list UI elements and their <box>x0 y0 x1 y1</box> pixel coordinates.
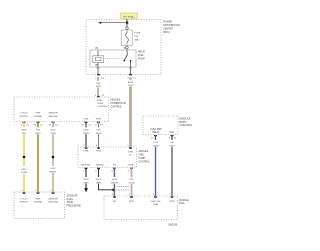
PDC label <box>163 21 180 35</box>
relay switch <box>123 50 131 75</box>
sensor pin numbers <box>21 190 52 192</box>
wire Z904 ground (black) <box>85 168 87 189</box>
svg-text:BR/WT: BR/WT <box>49 171 57 173</box>
svg-text:CONTROL: CONTROL <box>111 107 123 109</box>
node square junction <box>126 22 128 24</box>
svg-text:VT/LB: VT/LB <box>128 182 135 184</box>
svg-text:RELAY: RELAY <box>152 131 160 134</box>
wire K95 pump - (violet) <box>131 168 133 196</box>
wire K941 5 volt supply (yellow) <box>23 122 25 192</box>
wire K95 rtn (green) <box>98 122 100 147</box>
svg-text:MODULE: MODULE <box>179 200 189 202</box>
svg-text:SUPPLY: SUPPLY <box>20 202 29 204</box>
svg-text:FUEL: FUEL <box>179 203 186 205</box>
wire T16 (dark gray) <box>171 135 173 196</box>
pump module top connectors <box>113 196 174 198</box>
power distribution center dashed box <box>86 20 161 75</box>
svg-text:GROUND: GROUND <box>81 165 91 167</box>
hot at all times label <box>121 13 138 19</box>
svg-text:5 VOLT: 5 VOLT <box>20 198 28 200</box>
svg-text:RTN: RTN <box>96 119 101 121</box>
wire labels under PCM <box>19 127 104 134</box>
svg-text:18BK: 18BK <box>96 182 102 184</box>
svg-text:RTN: RTN <box>96 151 101 153</box>
wire K167 sensor ground (tan) <box>52 122 54 192</box>
relay name <box>138 51 146 61</box>
sensor label <box>67 194 82 208</box>
svg-text:PMP: PMP <box>36 198 41 200</box>
svg-text:SIGNAL: SIGNAL <box>34 201 43 204</box>
svg-text:DB/OR: DB/OR <box>111 182 118 184</box>
svg-text:MTR: MTR <box>129 165 134 167</box>
svg-text:POWERTRAIN: POWERTRAIN <box>111 102 127 105</box>
wire label K54 <box>93 81 103 88</box>
sensor pin labels <box>20 198 59 203</box>
svg-text:PUMP: PUMP <box>138 59 145 61</box>
svg-text:K167: K167 <box>50 130 56 132</box>
svg-text:J962530: J962530 <box>168 223 178 226</box>
svg-text:18DB: 18DB <box>153 145 159 147</box>
splice labels <box>19 166 58 174</box>
svg-text:K226: K226 <box>83 130 89 132</box>
svg-text:FUEL IND: FUEL IND <box>151 201 161 203</box>
junction dot <box>112 189 115 192</box>
svg-text:CONTROL: CONTROL <box>139 162 151 164</box>
twisted pair dashes <box>117 185 131 187</box>
coil to switch dashed link <box>104 58 123 60</box>
svg-text:T141: T141 <box>153 142 159 144</box>
svg-text:FUSE: FUSE <box>135 33 141 35</box>
svg-text:PMP: PMP <box>36 113 41 115</box>
PCM pin function labels <box>20 100 109 121</box>
svg-text:HOT AT ALL: HOT AT ALL <box>123 15 136 18</box>
svg-text:FUEL: FUEL <box>138 55 145 57</box>
FPCM top connectors <box>84 147 132 149</box>
wire T141 (blue) <box>155 135 157 196</box>
svg-text:MODULE: MODULE <box>139 151 149 153</box>
wire shield drain (black, joins pump+) <box>99 168 113 190</box>
fuel tank pressure sensor dashed box <box>14 192 65 219</box>
sensor top connectors <box>22 192 54 194</box>
BCM bottom connectors <box>154 135 174 137</box>
pump module pin labels <box>113 201 175 206</box>
svg-text:SHIELD: SHIELD <box>96 165 104 167</box>
PCM label <box>111 100 127 109</box>
fuel pump control module dashed box <box>78 147 137 168</box>
svg-text:SHLD: SHLD <box>96 179 102 181</box>
svg-text:MTR: MTR <box>170 201 175 203</box>
splice S2 on tan wire <box>52 156 55 159</box>
svg-text:18YL: 18YL <box>21 133 27 135</box>
svg-text:CONTROL: CONTROL <box>97 106 108 108</box>
fuel pump module dashed box <box>104 196 178 220</box>
ground arrow <box>84 188 88 192</box>
svg-text:18BK: 18BK <box>83 182 89 184</box>
svg-text:FUEL PMP: FUEL PMP <box>150 129 162 131</box>
svg-text:18GN: 18GN <box>96 133 102 135</box>
svg-text:SPB: SPB <box>128 152 133 154</box>
svg-text:K941: K941 <box>21 169 27 171</box>
svg-text:12TN: 12TN <box>128 85 134 87</box>
svg-text:MTR: MTR <box>129 201 134 203</box>
svg-text:18GY: 18GY <box>169 145 175 147</box>
wire K231 pump + (blue) <box>114 168 116 196</box>
svg-text:18TN: 18TN <box>96 86 102 88</box>
svg-text:30A: 30A <box>135 39 139 42</box>
pump module label <box>179 200 189 205</box>
svg-text:GROUND: GROUND <box>48 116 58 118</box>
wire K226 ctrl (dark blue) <box>85 122 87 147</box>
FPCM bottom wire labels <box>81 177 137 184</box>
splice S1 on yellow wire <box>23 156 26 159</box>
FPCM bottom connectors <box>84 168 133 170</box>
BCM label <box>180 117 193 128</box>
relay U: fuel pump relay box <box>90 50 136 67</box>
svg-text:18DY: 18DY <box>35 133 41 135</box>
svg-text:SIGNAL: SIGNAL <box>34 115 43 118</box>
svg-text:IGN: IGN <box>169 132 173 134</box>
svg-text:SENSOR: SENSOR <box>48 198 58 200</box>
svg-text:CTRL: CTRL <box>83 119 89 121</box>
svg-text:CONTROL: CONTROL <box>180 123 193 127</box>
wire A141 relay output (tan thick) <box>129 78 131 148</box>
BCM wire labels <box>150 140 177 147</box>
svg-text:PRESSURE: PRESSURE <box>67 204 82 208</box>
svg-text:CTRL: CTRL <box>83 151 89 153</box>
svg-text:PUMP: PUMP <box>139 158 146 160</box>
body control module dashed box <box>143 116 178 135</box>
feed wire with left arrow <box>100 22 127 24</box>
svg-text:SENSOR: SENSOR <box>48 113 58 115</box>
PCM top connector <box>97 96 100 98</box>
svg-text:K941: K941 <box>21 130 27 132</box>
wire label A141 <box>125 80 136 87</box>
svg-text:K231: K231 <box>112 179 118 181</box>
svg-text:A141: A141 <box>128 81 134 84</box>
svg-text:18TN: 18TN <box>50 133 56 135</box>
svg-text:RELAY: RELAY <box>138 51 146 54</box>
connector at PDC bottom, switch wire <box>129 74 132 76</box>
svg-text:PUMP: PUMP <box>97 103 104 105</box>
PCM bottom connectors <box>22 122 100 124</box>
wire K54 pump signal (dark yellow) <box>37 122 39 192</box>
svg-text:PMA: PMA <box>153 203 158 206</box>
fuse F12 <box>121 27 132 50</box>
BCM pin labels <box>150 129 174 134</box>
wire K54 relay coil to PCM (tan) <box>97 77 99 97</box>
svg-text:5 VOLT: 5 VOLT <box>20 113 28 115</box>
svg-text:MODULE: MODULE <box>111 100 121 102</box>
svg-text:YL/RD: YL/RD <box>21 172 28 174</box>
svg-text:Z904: Z904 <box>84 179 90 181</box>
svg-text:FUEL: FUEL <box>97 100 103 102</box>
svg-text:18DB: 18DB <box>83 133 89 135</box>
FPCM label <box>139 151 151 164</box>
relay coil <box>93 50 104 75</box>
FPCM pin labels <box>81 151 134 167</box>
svg-text:K167: K167 <box>50 168 56 170</box>
FPCM top pin numbers <box>83 145 129 147</box>
svg-text:(PDC): (PDC) <box>163 31 170 34</box>
svg-text:SUPPLY: SUPPLY <box>20 116 29 118</box>
wire from label to fuse <box>126 19 128 27</box>
pump module top pin numbers <box>112 194 172 196</box>
connector at PDC bottom, coil wire <box>97 74 100 76</box>
svg-text:GROUND: GROUND <box>48 202 58 204</box>
relay pin exit arcs <box>96 67 99 69</box>
powertrain control module dashed box <box>14 97 109 122</box>
svg-text:FUEL: FUEL <box>139 155 146 157</box>
